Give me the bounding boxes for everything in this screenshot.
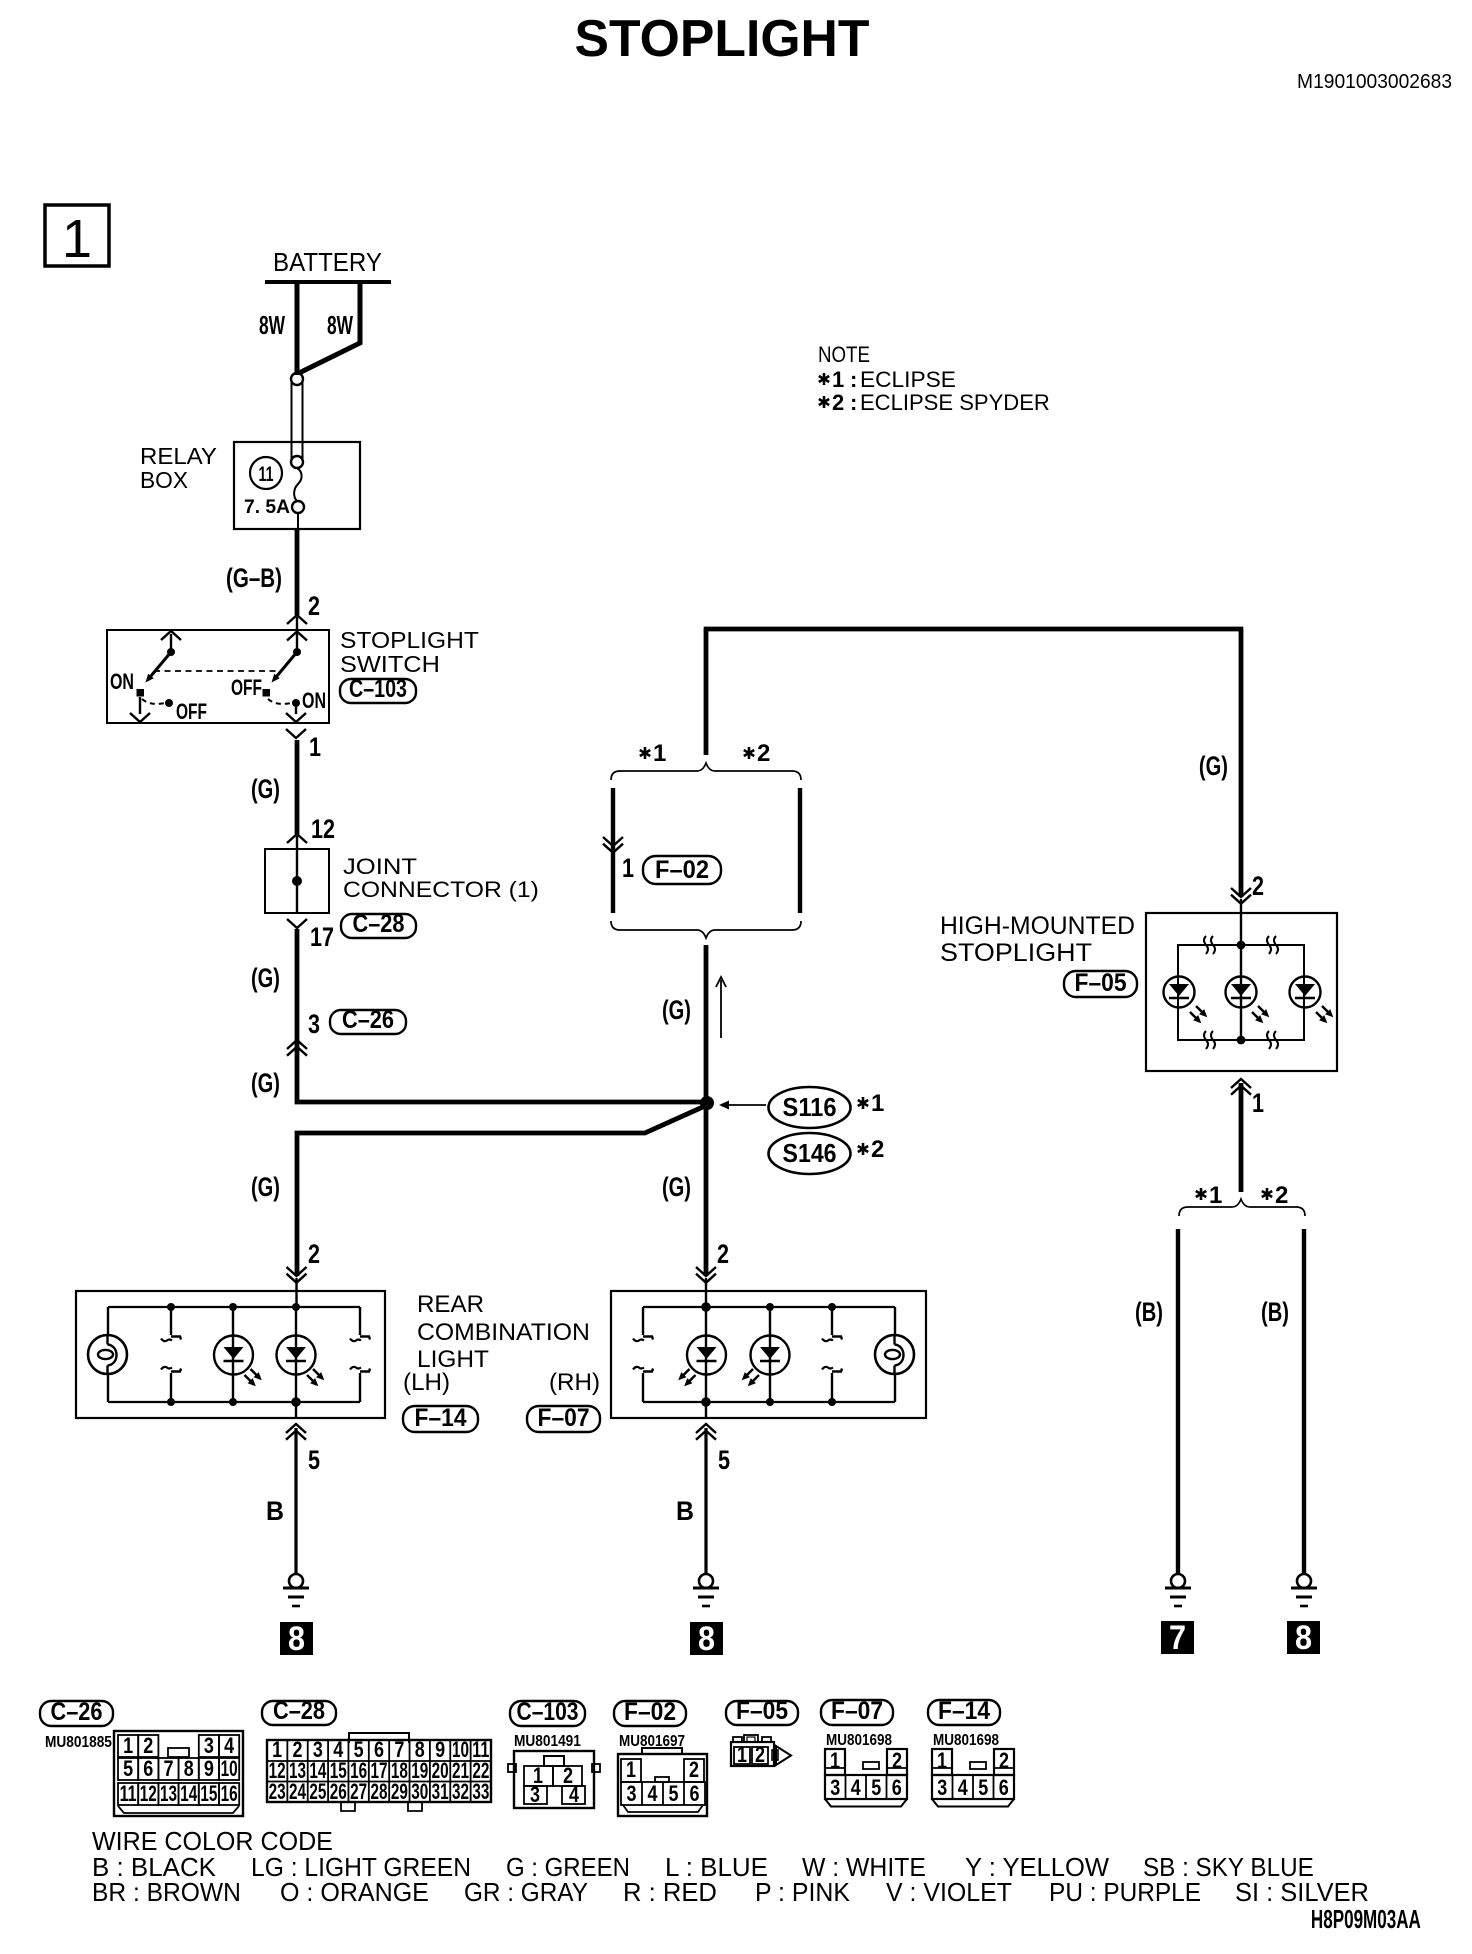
- splice pointer arrow: [719, 1101, 766, 1110]
- svg-text:2: 2: [832, 390, 844, 415]
- svg-text:27: 27: [350, 1780, 367, 1804]
- label OFF right: [231, 677, 262, 701]
- connector C-26 chevrons: [287, 1040, 307, 1056]
- RH terminal column left: [633, 1307, 653, 1402]
- connector label F-05: [1064, 969, 1137, 997]
- label pin 1 F-05: [1252, 1089, 1264, 1119]
- ground G8 LH: [283, 1574, 309, 1606]
- svg-text:11: 11: [258, 462, 273, 485]
- splice S116/S146 node: [700, 1096, 714, 1110]
- switch right contact square: [263, 689, 271, 697]
- label (B) left: [1135, 1297, 1163, 1328]
- note heading: [818, 344, 870, 368]
- connector F-05 chevrons out: [1231, 1079, 1251, 1095]
- svg-text:14: 14: [180, 1782, 197, 1806]
- flow direction arrow: [716, 977, 726, 1038]
- svg-text:5: 5: [871, 1776, 881, 1800]
- svg-text:3: 3: [530, 1783, 540, 1807]
- svg-text:B: B: [266, 1495, 284, 1526]
- label (G) 1: [251, 774, 280, 805]
- svg-text:3: 3: [627, 1782, 637, 1806]
- switch right pivot dot: [293, 648, 301, 656]
- LED lamp 3 HMSL: [1290, 977, 1334, 1024]
- svg-text:8: 8: [184, 1757, 194, 1781]
- stoplight switch box: [107, 630, 329, 723]
- svg-text:(G–B): (G–B): [226, 563, 282, 593]
- connector F-07 chevrons out: [696, 1424, 716, 1440]
- connector table label C-28: [262, 1697, 336, 1725]
- fusible link: [291, 373, 303, 468]
- svg-text:8W: 8W: [259, 310, 285, 339]
- label pin 5 F-14: [308, 1446, 320, 1476]
- label pin 2 F-14: [308, 1240, 320, 1270]
- LED lamp 1 HMSL: [1164, 977, 1208, 1024]
- note *1 ECLIPSE: [819, 367, 956, 392]
- svg-text:F–14: F–14: [938, 1697, 991, 1725]
- splice label S116: [769, 1087, 851, 1128]
- svg-text:7: 7: [163, 1757, 173, 1781]
- connector label F-02: [643, 856, 721, 884]
- svg-text:3: 3: [308, 1010, 320, 1040]
- svg-text:1: 1: [937, 1749, 947, 1773]
- svg-text:1: 1: [622, 854, 634, 884]
- connector label C-103: [340, 675, 416, 703]
- svg-text:10: 10: [221, 1757, 238, 1781]
- svg-text:L : BLUE: L : BLUE: [665, 1852, 768, 1882]
- svg-text:REAR: REAR: [417, 1291, 484, 1318]
- label HIGH-MOUNTED STOPLIGHT: [940, 912, 1135, 967]
- label REAR COMBINATION LIGHT: [417, 1291, 590, 1373]
- switch right ON arc: [268, 699, 300, 707]
- svg-text:13: 13: [160, 1782, 177, 1806]
- svg-text:(B): (B): [1261, 1297, 1289, 1328]
- svg-text:25: 25: [309, 1780, 326, 1804]
- battery bus bar: [265, 280, 391, 284]
- note *2 ECLIPSE SPYDER: [819, 390, 1050, 415]
- svg-text:C–28: C–28: [273, 1697, 325, 1725]
- LH bottom rail: [108, 1401, 360, 1403]
- svg-text:1: 1: [832, 367, 844, 392]
- label B LH: [266, 1495, 284, 1526]
- wire (B) eclipse: [1176, 1229, 1180, 1574]
- HMSL bottom junction dot: [1237, 1036, 1246, 1045]
- wire (G-B) relay to stoplight switch: [295, 529, 300, 615]
- svg-text:C–103: C–103: [349, 675, 407, 703]
- part number MU801698 b: [933, 1732, 999, 1749]
- svg-text:STOPLIGHT: STOPLIGHT: [940, 938, 1092, 967]
- ground G8 right: [1291, 1574, 1317, 1606]
- HMSL squiggle top right: [1267, 936, 1278, 954]
- label *1 bottom: [1196, 1182, 1223, 1209]
- wire (G) switch to joint connector: [295, 740, 300, 834]
- svg-text:33: 33: [472, 1780, 489, 1804]
- wire color code line 2: [92, 1852, 1314, 1882]
- svg-text:ECLIPSE: ECLIPSE: [860, 367, 956, 392]
- svg-text:MU801885: MU801885: [45, 1734, 112, 1751]
- svg-text:OFF: OFF: [231, 677, 262, 701]
- rear combination light RH box F-07: [611, 1291, 926, 1418]
- label 8W left: [259, 310, 285, 339]
- ground ref 8 right: [1287, 1619, 1320, 1657]
- connector label F-07: [527, 1404, 600, 1432]
- wire (B) spyder: [1302, 1229, 1306, 1574]
- connector F-14 chevrons in: [287, 1267, 307, 1307]
- wire battery right: [299, 280, 360, 373]
- connector F-07 chevrons in: [696, 1267, 716, 1307]
- label *1 F-02: [640, 740, 667, 767]
- RH terminal column 4: [822, 1303, 842, 1406]
- connector F-14 chevrons out: [286, 1424, 306, 1440]
- svg-text:(G): (G): [251, 1172, 280, 1203]
- ground G8 RH: [693, 1574, 719, 1606]
- part number MU801698 a: [826, 1732, 892, 1749]
- HMSL top junction dot: [1237, 941, 1246, 950]
- ground ref 8 LH: [280, 1620, 313, 1658]
- svg-text:NOTE: NOTE: [818, 344, 870, 368]
- LED lamp LH 1: [214, 1303, 262, 1406]
- LH top rail: [108, 1306, 360, 1308]
- wire (G) to splice: [297, 929, 704, 1102]
- svg-text:2: 2: [871, 1136, 884, 1163]
- svg-text:2: 2: [755, 1743, 765, 1767]
- part number MU801885: [45, 1734, 112, 1751]
- label B RH: [676, 1495, 694, 1526]
- connector table label C-26: [40, 1698, 113, 1726]
- svg-text:2: 2: [308, 1240, 320, 1270]
- svg-text:2: 2: [717, 1240, 729, 1270]
- wire F-02 to top corner: [704, 629, 709, 755]
- high-mounted stoplight box F-05: [1146, 913, 1337, 1071]
- svg-text:12: 12: [140, 1782, 157, 1806]
- svg-text:4: 4: [648, 1782, 659, 1806]
- svg-text:9: 9: [204, 1757, 214, 1781]
- svg-text:30: 30: [411, 1780, 428, 1804]
- svg-text:8: 8: [288, 1620, 305, 1658]
- label pin 5 F-07: [718, 1446, 730, 1476]
- svg-text:24: 24: [289, 1780, 306, 1804]
- connector C-103 pin 2 chevrons: [287, 615, 307, 652]
- label pin 12 C-28: [311, 815, 335, 845]
- label (G) 6 right: [1199, 751, 1228, 782]
- svg-text:7: 7: [1169, 1619, 1186, 1657]
- HMSL squiggle bottom right: [1267, 1031, 1278, 1049]
- label pin 2 F-07: [717, 1240, 729, 1270]
- svg-text:17: 17: [310, 923, 334, 953]
- sheet number 1 box: [45, 205, 109, 269]
- svg-text:C–103: C–103: [517, 1697, 579, 1725]
- svg-text:8: 8: [698, 1620, 715, 1658]
- switch right lever: [272, 652, 298, 683]
- svg-text:1: 1: [653, 740, 666, 767]
- connector table label F-05: [726, 1697, 798, 1725]
- connector table label F-14: [928, 1697, 1000, 1725]
- svg-text:RELAY: RELAY: [140, 443, 217, 468]
- label pin 17 C-28: [310, 923, 334, 953]
- svg-text:1: 1: [737, 1743, 747, 1767]
- svg-text:5: 5: [669, 1782, 679, 1806]
- svg-text:4: 4: [569, 1783, 580, 1807]
- svg-text:28: 28: [371, 1780, 388, 1804]
- switch right exit wire: [286, 656, 306, 722]
- ground ref 8 RH: [690, 1620, 723, 1658]
- label pin 3 C-26: [308, 1010, 320, 1040]
- svg-text:6: 6: [999, 1776, 1009, 1800]
- drawing code H8P09M03AA: [1311, 1904, 1421, 1934]
- label ON left: [110, 671, 134, 695]
- label (LH): [403, 1369, 450, 1396]
- svg-text:ECLIPSE SPYDER: ECLIPSE SPYDER: [860, 390, 1050, 415]
- svg-text:S146: S146: [783, 1140, 837, 1169]
- svg-text:2: 2: [689, 1758, 699, 1782]
- svg-text:3: 3: [830, 1776, 840, 1800]
- wire battery left: [295, 280, 300, 375]
- joint connector chevron out: [287, 919, 307, 928]
- connector drawing C-103: [508, 1751, 600, 1808]
- svg-text::: :: [850, 390, 857, 415]
- svg-text:P : PINK: P : PINK: [755, 1879, 850, 1908]
- svg-text:1: 1: [830, 1749, 840, 1773]
- title: [575, 9, 870, 67]
- svg-text:V : VIOLET: V : VIOLET: [886, 1879, 1012, 1908]
- svg-text:2: 2: [757, 740, 770, 767]
- label (G) 7 middle lower: [662, 1172, 691, 1203]
- label ON right: [302, 690, 326, 714]
- svg-text:29: 29: [391, 1780, 408, 1804]
- svg-text:MU801491: MU801491: [514, 1733, 581, 1750]
- svg-text:3: 3: [937, 1776, 947, 1800]
- svg-text:(G): (G): [1199, 751, 1228, 782]
- LH terminal column 5: [350, 1307, 370, 1402]
- svg-text:C–26: C–26: [342, 1006, 394, 1034]
- LED lamp 2 HMSL: [1226, 977, 1270, 1024]
- svg-text:GR : GRAY: GR : GRAY: [464, 1878, 588, 1907]
- svg-text:1: 1: [1252, 1089, 1264, 1119]
- svg-text:H8P09M03AA: H8P09M03AA: [1311, 1904, 1421, 1934]
- svg-text:(G): (G): [662, 1172, 691, 1203]
- wire color code line 3: [92, 1878, 1369, 1907]
- connector label F-14: [403, 1404, 478, 1432]
- svg-text:F–07: F–07: [831, 1697, 883, 1725]
- svg-text:F–05: F–05: [736, 1697, 788, 1725]
- splice label S146: [769, 1133, 851, 1174]
- svg-text:6: 6: [892, 1776, 902, 1800]
- battery label: [273, 248, 382, 277]
- wire color code heading: [92, 1828, 333, 1857]
- svg-text:16: 16: [221, 1782, 238, 1806]
- connector F-05 chevrons in: [1231, 888, 1251, 945]
- svg-text:2: 2: [999, 1749, 1009, 1773]
- svg-text:12: 12: [311, 815, 335, 845]
- wire (G) splice down to RH light: [704, 1103, 709, 1276]
- svg-text:(RH): (RH): [549, 1369, 600, 1396]
- label 8W right: [327, 310, 353, 339]
- svg-text:2: 2: [892, 1749, 902, 1773]
- wire (G) down to high-mounted stoplight: [1239, 629, 1244, 897]
- svg-text:BATTERY: BATTERY: [273, 248, 382, 277]
- svg-text:CONNECTOR (1): CONNECTOR (1): [343, 877, 539, 901]
- svg-text:1: 1: [871, 1090, 884, 1117]
- svg-text:6: 6: [690, 1782, 700, 1806]
- label pin 2 F-05: [1252, 872, 1264, 902]
- svg-text:11: 11: [120, 1783, 137, 1807]
- ground G7: [1165, 1574, 1191, 1606]
- HMSL squiggle bottom left: [1204, 1031, 1215, 1049]
- label (G-B): [226, 563, 282, 593]
- svg-text:(B): (B): [1135, 1297, 1163, 1328]
- svg-text:1: 1: [1209, 1182, 1222, 1209]
- bulb lamp LH: [88, 1307, 127, 1402]
- svg-text:(G): (G): [662, 995, 691, 1026]
- brace bottom F-02: [611, 921, 801, 938]
- svg-text:3: 3: [204, 1734, 214, 1758]
- label *2 splice: [858, 1136, 885, 1163]
- joint connector (1) C-28: [265, 849, 329, 913]
- LH terminal column 2: [161, 1303, 181, 1406]
- svg-text:5: 5: [718, 1446, 730, 1476]
- svg-text:(LH): (LH): [403, 1369, 450, 1396]
- switch left arrow down: [130, 697, 150, 722]
- svg-text:OFF: OFF: [176, 701, 207, 725]
- svg-text:23: 23: [269, 1780, 286, 1804]
- svg-text:2: 2: [143, 1734, 153, 1758]
- connector table label F-07: [821, 1697, 893, 1725]
- HMSL center wire: [1240, 945, 1242, 1040]
- label (RH): [549, 1369, 600, 1396]
- joint connector chevron in: [287, 834, 307, 849]
- switch left pivot dot: [167, 648, 175, 656]
- label (B) right: [1261, 1297, 1289, 1328]
- svg-text:B: B: [676, 1495, 694, 1526]
- svg-text:1: 1: [62, 209, 92, 269]
- svg-text:BOX: BOX: [140, 467, 188, 493]
- svg-text:1: 1: [309, 733, 321, 763]
- connector drawing F-02: [618, 1748, 707, 1816]
- switch left contact square: [137, 689, 145, 697]
- HMSL squiggle top left: [1204, 936, 1215, 954]
- svg-text:26: 26: [330, 1780, 347, 1804]
- RH bottom rail: [643, 1401, 895, 1403]
- svg-text:(G): (G): [251, 963, 280, 994]
- svg-text:5: 5: [123, 1757, 133, 1781]
- svg-text:C–26: C–26: [51, 1698, 103, 1726]
- wire return from splice to LH branch: [297, 1106, 705, 1276]
- switch left pole arrow up: [161, 631, 181, 651]
- wire B LH to ground: [294, 1428, 297, 1574]
- svg-text:4: 4: [958, 1776, 969, 1800]
- svg-text:ON: ON: [110, 671, 134, 695]
- switch left OFF arc: [142, 699, 173, 707]
- svg-text:2: 2: [1252, 872, 1264, 902]
- label STOPLIGHT SWITCH: [340, 628, 479, 678]
- svg-text:(G): (G): [251, 1068, 280, 1099]
- svg-text:M1901003002683: M1901003002683: [1297, 71, 1452, 93]
- doc number: [1297, 71, 1452, 93]
- LED lamp RH 1 main: [678, 1302, 726, 1418]
- label (G) 3: [251, 1068, 280, 1099]
- label (G) 5 middle: [662, 995, 691, 1026]
- wire top horizontal: [704, 627, 1244, 632]
- bulb lamp RH: [875, 1307, 914, 1402]
- svg-text:F–07: F–07: [538, 1404, 590, 1432]
- svg-text:32: 32: [452, 1780, 469, 1804]
- connector drawing F-14: [932, 1749, 1014, 1807]
- brace top F-02: [611, 763, 801, 780]
- label *2 bottom: [1262, 1182, 1289, 1209]
- LED lamp LH 2 main: [277, 1303, 325, 1418]
- label JOINT CONNECTOR (1): [343, 855, 539, 902]
- label (G) 4 left: [251, 1172, 280, 1203]
- wire F-05 to ground branches: [1239, 1083, 1244, 1192]
- svg-text:F–02: F–02: [624, 1698, 676, 1726]
- connector drawing C-28: [267, 1733, 491, 1811]
- svg-text:2: 2: [1275, 1182, 1288, 1209]
- connector label C-28: [341, 910, 416, 938]
- connector drawing F-05: [731, 1735, 791, 1767]
- svg-text:ON: ON: [302, 690, 326, 714]
- svg-text:MU801698: MU801698: [826, 1732, 892, 1749]
- RH top rail: [643, 1306, 895, 1308]
- svg-text:MU801698: MU801698: [933, 1732, 999, 1749]
- svg-text:F–14: F–14: [415, 1404, 468, 1432]
- connector table label F-02: [614, 1698, 686, 1726]
- connector F-02 bar *1: [611, 788, 615, 913]
- connector label C-26: [330, 1006, 406, 1034]
- label OFF left: [176, 701, 207, 725]
- svg-text:R : RED: R : RED: [623, 1879, 717, 1907]
- svg-text:STOPLIGHT: STOPLIGHT: [340, 628, 479, 654]
- svg-text:1: 1: [123, 1734, 133, 1758]
- switch left lever: [146, 652, 172, 683]
- label *1 splice: [858, 1090, 885, 1117]
- connector F-02 bar *2: [798, 788, 802, 913]
- svg-text:SI : SILVER: SI : SILVER: [1235, 1879, 1369, 1907]
- svg-text:PU : PURPLE: PU : PURPLE: [1049, 1878, 1201, 1907]
- brace bottom right: [1179, 1199, 1305, 1216]
- svg-text:4: 4: [224, 1734, 235, 1758]
- connector F-02 bar *1 chevrons: [603, 837, 623, 853]
- svg-text:15: 15: [200, 1782, 217, 1806]
- svg-text:F–05: F–05: [1075, 969, 1127, 997]
- svg-text:1: 1: [626, 1758, 636, 1782]
- label pin 1 C-103: [309, 733, 321, 763]
- relay box: [140, 442, 360, 529]
- svg-text:C–28: C–28: [353, 910, 405, 938]
- svg-text:5: 5: [978, 1776, 988, 1800]
- svg-text:8: 8: [1295, 1619, 1312, 1657]
- svg-text:4: 4: [851, 1776, 862, 1800]
- ground ref 7: [1161, 1619, 1194, 1657]
- switch mechanical link: [154, 670, 280, 672]
- fuse 11 7.5A: [244, 457, 304, 529]
- wire (G) splice up to F-02: [704, 945, 709, 1103]
- label *2 F-02: [744, 740, 771, 767]
- svg-text:O : ORANGE: O : ORANGE: [280, 1879, 429, 1908]
- svg-text:8W: 8W: [327, 310, 353, 339]
- svg-text:COMBINATION: COMBINATION: [417, 1319, 590, 1346]
- connector drawing C-26: [114, 1731, 243, 1816]
- rear combination light LH box F-14: [76, 1291, 385, 1418]
- svg-text:(G): (G): [251, 774, 280, 805]
- svg-text:S116: S116: [783, 1093, 837, 1122]
- svg-text:STOPLIGHT: STOPLIGHT: [575, 9, 870, 67]
- part number MU801491: [514, 1733, 581, 1750]
- connector drawing F-07: [825, 1749, 907, 1807]
- connector table label C-103: [510, 1697, 585, 1726]
- svg-text:JOINT: JOINT: [343, 855, 417, 880]
- svg-text:6: 6: [143, 1757, 153, 1781]
- part number MU801697: [619, 1733, 685, 1750]
- svg-text:31: 31: [432, 1780, 449, 1804]
